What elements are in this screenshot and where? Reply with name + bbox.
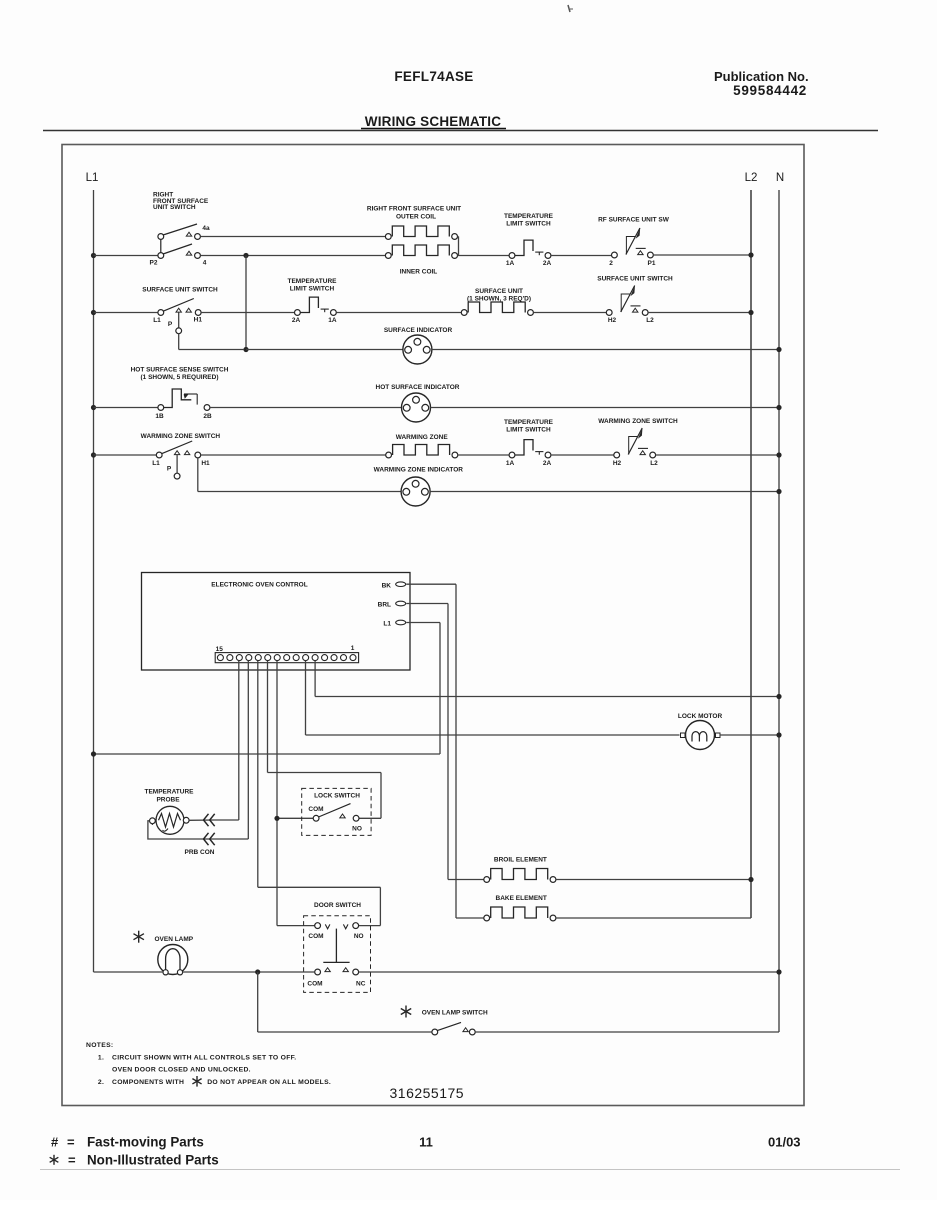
connector terminal strip P1 pins 15-1 — [215, 653, 358, 663]
label door upper NO — [354, 933, 364, 940]
label P row5 — [167, 466, 172, 473]
label 2B — [203, 413, 212, 420]
svg-text:FEFL74ASE: FEFL74ASE — [394, 69, 473, 84]
label 4a — [202, 225, 210, 232]
svg-text:OVEN LAMP SWITCH: OVEN LAMP SWITCH — [422, 1010, 488, 1017]
junction lamprow-N — [776, 969, 781, 974]
svg-text:SURFACE UNIT: SURFACE UNIT — [475, 288, 523, 295]
svg-text:TEMPERATURE: TEMPERATURE — [145, 789, 195, 796]
svg-text:DO NOT APPEAR ON ALL MODELS.: DO NOT APPEAR ON ALL MODELS. — [207, 1079, 331, 1086]
resistor inner coil — [385, 245, 457, 258]
resistor bake element — [484, 907, 556, 921]
junction row2-L2 — [748, 310, 753, 315]
wire tap down to bottom row — [258, 972, 432, 1032]
svg-text:CIRCUIT SHOWN WITH ALL CONTROL: CIRCUIT SHOWN WITH ALL CONTROLS SET TO O… — [112, 1054, 296, 1061]
label oven lamp switch star — [401, 1006, 411, 1018]
junction row5-N — [776, 452, 781, 457]
svg-text:(1 SHOWN, 3 REQ'D): (1 SHOWN, 3 REQ'D) — [467, 295, 531, 302]
svg-text:WARMING ZONE: WARMING ZONE — [396, 434, 449, 441]
svg-text:BRL: BRL — [378, 602, 391, 609]
svg-text:UNIT SWITCH: UNIT SWITCH — [153, 204, 196, 211]
svg-text:OUTER COIL: OUTER COIL — [396, 214, 436, 221]
wire lock motor to N — [720, 734, 779, 736]
wire pin9 to lock COM and door COM — [277, 661, 315, 926]
label warming zone indicator — [374, 467, 464, 474]
wire L1 to warming switch — [94, 454, 157, 456]
svg-text:P1: P1 — [648, 260, 656, 267]
wire warming indicator to N — [430, 491, 779, 493]
label warming zone element — [396, 434, 449, 441]
junction L1-row1 — [91, 253, 96, 258]
svg-text:BROIL ELEMENT: BROIL ELEMENT — [494, 857, 547, 864]
node L1 label — [86, 172, 99, 184]
switch warming zone switch right — [614, 428, 656, 458]
block U1 electronic oven control — [142, 573, 411, 671]
pin BRL — [378, 601, 406, 608]
connector chevrons probe hot — [204, 814, 215, 826]
schematic border frame — [62, 145, 804, 1106]
label broil element — [494, 857, 547, 864]
label hot surface sense switch — [131, 367, 229, 381]
resistor outer coil — [385, 226, 457, 239]
svg-text:2B: 2B — [203, 413, 212, 420]
label right front surface unit coil — [367, 206, 461, 221]
svg-text:(1 SHOWN, 5 REQUIRED): (1 SHOWN, 5 REQUIRED) — [140, 374, 218, 381]
wire switch to N row5 — [656, 454, 779, 456]
label 2A row2 — [292, 317, 301, 324]
svg-text:4a: 4a — [202, 225, 210, 232]
svg-text:L2: L2 — [646, 317, 654, 324]
label right front surface unit switch — [153, 192, 209, 212]
note 2 part a — [98, 1079, 184, 1086]
svg-text:COM: COM — [307, 981, 322, 988]
wire 4 to inner coil — [200, 255, 385, 257]
wire limit to warming switch right — [551, 454, 614, 456]
svg-text:SURFACE UNIT SWITCH: SURFACE UNIT SWITCH — [142, 287, 218, 294]
stray scan mark — [568, 5, 573, 12]
svg-text:LIMIT SWITCH: LIMIT SWITCH — [506, 426, 551, 433]
svg-text:NOTES:: NOTES: — [86, 1042, 113, 1049]
wire element to limit row5 — [458, 454, 509, 456]
svg-text:DOOR SWITCH: DOOR SWITCH — [314, 902, 361, 909]
lamp warming zone indicator — [401, 477, 430, 506]
label 2 — [609, 260, 613, 267]
page rule — [43, 130, 878, 132]
svg-text:RF SURFACE UNIT SW: RF SURFACE UNIT SW — [598, 217, 670, 224]
junction row1-x246 — [243, 253, 248, 258]
wire hot surface indicator to N — [431, 407, 780, 409]
svg-text:TEMPERATURE: TEMPERATURE — [288, 278, 338, 285]
svg-text:316255175: 316255175 — [390, 1085, 465, 1101]
wire row1 to row3 vertical — [245, 256, 247, 350]
switch temperature limit switch row1 — [509, 240, 551, 258]
note 2 part b — [207, 1079, 331, 1086]
label door lower NC — [356, 981, 366, 988]
enclosure door switch — [304, 916, 371, 993]
label surface indicator — [384, 327, 453, 334]
wire pin5 to N — [315, 661, 779, 697]
svg-text:H1: H1 — [194, 317, 203, 324]
wire coil join — [458, 237, 459, 256]
svg-text:BAKE ELEMENT: BAKE ELEMENT — [496, 895, 547, 902]
svg-text:L2: L2 — [745, 172, 758, 184]
svg-text:1A: 1A — [328, 317, 337, 324]
wire N rail — [778, 190, 780, 1032]
svg-text:P: P — [167, 466, 172, 473]
svg-text:WIRING SCHEMATIC: WIRING SCHEMATIC — [365, 114, 501, 129]
junction row1-L2 — [748, 252, 753, 257]
switch surface unit switch right — [606, 285, 648, 315]
wire junction to surface indicator — [246, 349, 403, 351]
junction lamp row tap — [255, 969, 260, 974]
resistor broil element — [484, 869, 556, 883]
heading WIRING SCHEMATIC — [361, 114, 506, 129]
label hot surface indicator — [376, 384, 460, 391]
svg-text:OVEN LAMP: OVEN LAMP — [154, 936, 193, 943]
svg-text:H1: H1 — [201, 460, 210, 467]
label temperature limit switch row5 — [504, 419, 554, 433]
connector chevrons probe return — [204, 833, 215, 845]
wire BK to bake element — [406, 584, 484, 918]
svg-text:WARMING ZONE INDICATOR: WARMING ZONE INDICATOR — [374, 467, 464, 474]
node L2 label — [745, 172, 758, 184]
publication number — [714, 69, 809, 98]
wire lamp switch to N — [475, 1031, 779, 1033]
svg-text:11: 11 — [419, 1135, 433, 1150]
svg-text:4: 4 — [203, 260, 207, 267]
svg-text:2A: 2A — [543, 460, 552, 467]
wire probe return — [148, 821, 215, 839]
label 1A row2 — [328, 317, 337, 324]
wire L1 to P2 — [94, 255, 158, 257]
label electronic oven control — [211, 582, 307, 589]
wire H1 to warming element — [201, 454, 386, 456]
junction lockmotor-N — [776, 732, 781, 737]
label oven lamp star — [133, 931, 143, 943]
svg-text:15: 15 — [216, 646, 224, 653]
label RF surface unit sw — [598, 217, 670, 224]
linkage door switch actuator — [323, 929, 349, 963]
label pin 15 — [216, 646, 224, 653]
label L2 row2 — [646, 317, 654, 324]
wire L2 rail — [750, 190, 752, 918]
svg-text:PROBE: PROBE — [156, 796, 180, 803]
switch surface unit switch left — [158, 299, 201, 316]
svg-text:COM: COM — [308, 806, 323, 813]
svg-text:599584442: 599584442 — [733, 83, 807, 98]
wire L1 to surface unit switch — [94, 312, 158, 314]
switch temperature limit switch row2 — [295, 297, 337, 315]
label lock NO — [352, 826, 362, 833]
svg-text:L1: L1 — [383, 621, 391, 628]
enclosure lock switch — [302, 788, 371, 835]
svg-text:SURFACE INDICATOR: SURFACE INDICATOR — [384, 327, 453, 334]
wire H1 to limit switch row2 — [201, 312, 294, 314]
svg-text:L1: L1 — [153, 317, 161, 324]
switch warming zone switch left — [156, 441, 200, 458]
label H2 row2 — [608, 317, 617, 324]
label door switch — [314, 902, 361, 909]
note 2 star — [192, 1076, 201, 1087]
wire coils to limit switch — [459, 255, 510, 257]
svg-text:NC: NC — [356, 981, 366, 988]
svg-text:LOCK SWITCH: LOCK SWITCH — [314, 793, 360, 800]
pin L1 — [383, 620, 405, 627]
label temperature probe — [145, 789, 195, 804]
switch hot surface sense switch — [158, 389, 210, 410]
label L1 row5 — [152, 460, 160, 467]
junction pin5-N — [776, 694, 781, 699]
svg-text:2.: 2. — [98, 1079, 104, 1086]
svg-text:H2: H2 — [613, 460, 622, 467]
wire element to switch row2 — [533, 312, 606, 314]
wire pin11 to door NO — [258, 661, 381, 926]
junction broil-L2 — [748, 877, 753, 882]
svg-text:BK: BK — [382, 582, 392, 589]
label 1A row1 — [506, 260, 515, 267]
wire L1 pin to L1 rail — [94, 623, 441, 755]
wire door NC to N — [359, 971, 779, 973]
junction row4-N — [776, 405, 781, 410]
wire L1 to oven lamp — [94, 971, 164, 973]
label P1 — [648, 260, 656, 267]
footer faint rule — [40, 1169, 900, 1171]
lamp surface indicator — [403, 335, 432, 364]
wire pin6 to lock motor — [306, 661, 680, 735]
switch S1 right front surface unit switch — [158, 224, 201, 258]
wire L1 to 1B — [94, 407, 158, 409]
label H2 row5 — [613, 460, 622, 467]
junction x246-row3 — [243, 347, 248, 352]
label warming zone switch right — [598, 418, 678, 425]
wire H1 drop to row6 — [198, 458, 401, 492]
svg-text:Non-Illustrated Parts: Non-Illustrated Parts — [87, 1153, 219, 1168]
svg-text:L2: L2 — [650, 460, 658, 467]
switch RF surface unit sw — [612, 228, 654, 258]
switch lock switch — [313, 804, 359, 822]
junction lock COM — [274, 816, 279, 821]
label oven lamp — [154, 936, 193, 943]
part number 316255175 — [390, 1085, 465, 1101]
label oven lamp switch — [422, 1010, 488, 1017]
svg-text:H2: H2 — [608, 317, 617, 324]
wire pin10 to lock NO — [268, 661, 382, 819]
svg-text:WARMING ZONE SWITCH: WARMING ZONE SWITCH — [141, 433, 221, 440]
svg-text:OVEN DOOR CLOSED AND UNLOCKED.: OVEN DOOR CLOSED AND UNLOCKED. — [112, 1067, 251, 1074]
svg-text:HOT SURFACE SENSE SWITCH: HOT SURFACE SENSE SWITCH — [131, 367, 229, 374]
svg-text:1A: 1A — [506, 260, 515, 267]
svg-text:L1: L1 — [152, 460, 160, 467]
wire surface indicator to N — [432, 349, 779, 351]
wire broil to L2 — [556, 879, 751, 881]
svg-text:ELECTRONIC OVEN CONTROL: ELECTRONIC OVEN CONTROL — [211, 582, 307, 589]
svg-text:P2: P2 — [150, 260, 158, 267]
label H1 row2 — [194, 317, 203, 324]
label temperature limit switch row2 — [288, 278, 338, 292]
wire probe hot — [189, 819, 214, 821]
label lock switch — [314, 793, 360, 800]
terminal P stub row5 — [174, 455, 180, 479]
label temperature limit switch row1 — [504, 213, 554, 227]
svg-text:TEMPERATURE: TEMPERATURE — [504, 213, 554, 220]
wire 4a to outer coil — [200, 236, 385, 238]
junction L1-row2 — [91, 310, 96, 315]
junction row3-N — [776, 347, 781, 352]
switch oven lamp switch — [432, 1022, 475, 1035]
motor M1 lock motor — [681, 721, 721, 750]
label 1B — [155, 413, 164, 420]
svg-text:2A: 2A — [543, 260, 552, 267]
svg-text:=: = — [67, 1135, 75, 1150]
label P row2 — [168, 321, 173, 328]
label PRB CON — [185, 849, 215, 856]
label P2 — [150, 260, 158, 267]
svg-text:RIGHT FRONT SURFACE UNIT: RIGHT FRONT SURFACE UNIT — [367, 206, 461, 213]
wire 2B to hot surface indicator — [210, 407, 402, 409]
lamp hot surface indicator — [402, 393, 431, 422]
footer non-illustrated parts — [50, 1153, 219, 1168]
svg-text:COMPONENTS WITH: COMPONENTS WITH — [112, 1079, 184, 1086]
label surface unit switch left — [142, 287, 218, 294]
wire pin13 to probe — [215, 661, 239, 820]
svg-text:PRB CON: PRB CON — [185, 849, 215, 856]
label L2 row5 — [650, 460, 658, 467]
wire limit to element row2 — [336, 312, 461, 314]
note 1 line 1 — [98, 1054, 297, 1061]
switch door switch lower contacts — [315, 968, 359, 975]
junction L1 rail-eoc — [91, 751, 96, 756]
wire oven lamp to door COM — [183, 971, 315, 973]
label pin 1 — [351, 645, 355, 652]
svg-text:LIMIT SWITCH: LIMIT SWITCH — [290, 285, 335, 292]
svg-text:LOCK MOTOR: LOCK MOTOR — [678, 713, 723, 720]
node N label — [776, 172, 784, 184]
note 1 line 2 — [112, 1067, 251, 1074]
svg-text:WARMING ZONE SWITCH: WARMING ZONE SWITCH — [598, 418, 678, 425]
svg-text:1: 1 — [351, 645, 355, 652]
svg-text:2: 2 — [609, 260, 613, 267]
svg-text:NO: NO — [352, 826, 362, 833]
switch temperature limit switch row5 — [509, 440, 551, 458]
junction row6-N — [776, 489, 781, 494]
label surface unit element — [467, 288, 531, 302]
svg-text:=: = — [68, 1153, 76, 1168]
footer page number — [419, 1135, 433, 1150]
label H1 row5 — [201, 460, 210, 467]
wire L1 rail — [93, 190, 95, 972]
wire pin12 to probe return — [215, 661, 248, 839]
wire bake to L2 — [556, 917, 751, 919]
label 1A row5 — [506, 460, 515, 467]
junction L1-row5 — [91, 452, 96, 457]
label warming zone switch left — [141, 433, 221, 440]
label lock motor — [678, 713, 723, 720]
resistor warming zone element — [386, 445, 458, 458]
wire switch to L2 row2 — [648, 312, 751, 314]
label door upper COM — [308, 933, 323, 940]
label door lower COM — [307, 981, 322, 988]
label 2A row5 — [543, 460, 552, 467]
svg-text:HOT SURFACE INDICATOR: HOT SURFACE INDICATOR — [376, 384, 460, 391]
label 4 — [203, 260, 207, 267]
junction L1-row4 — [91, 405, 96, 410]
svg-text:2A: 2A — [292, 317, 301, 324]
label 2A row1 — [543, 260, 552, 267]
svg-text:LIMIT SWITCH: LIMIT SWITCH — [506, 220, 551, 227]
wire limit to RF switch — [551, 255, 612, 257]
footer date — [768, 1135, 801, 1150]
wire RF switch to L2 — [653, 254, 751, 256]
resistor surface unit element — [461, 302, 533, 315]
switch door switch upper contacts — [315, 923, 359, 929]
label surface unit switch right — [597, 276, 673, 283]
svg-text:INNER COIL: INNER COIL — [400, 269, 438, 276]
svg-text:1A: 1A — [506, 460, 515, 467]
thermistor temperature probe — [150, 806, 190, 834]
label lock COM — [308, 806, 323, 813]
svg-text:Fast-moving Parts: Fast-moving Parts — [87, 1135, 204, 1150]
footer fast-moving parts — [51, 1135, 204, 1150]
svg-text:#: # — [51, 1135, 59, 1150]
svg-text:L1: L1 — [86, 172, 99, 184]
svg-text:N: N — [776, 172, 784, 184]
lamp oven lamp — [158, 945, 188, 975]
svg-text:COM: COM — [308, 933, 323, 940]
terminal P drop row2 — [176, 313, 182, 334]
svg-text:NO: NO — [354, 933, 364, 940]
wire P to junction — [179, 334, 244, 350]
wire BRL to broil element — [406, 604, 484, 880]
notes heading — [86, 1042, 113, 1049]
page title FEFL74ASE — [394, 69, 473, 84]
svg-text:P: P — [168, 321, 173, 328]
label inner coil — [400, 269, 438, 276]
svg-text:TEMPERATURE: TEMPERATURE — [504, 419, 554, 426]
label L1 row2 — [153, 317, 161, 324]
svg-text:1B: 1B — [155, 413, 164, 420]
svg-text:01/03: 01/03 — [768, 1135, 801, 1150]
svg-text:SURFACE UNIT SWITCH: SURFACE UNIT SWITCH — [597, 276, 673, 283]
svg-text:1.: 1. — [98, 1054, 104, 1061]
label bake element — [496, 895, 547, 902]
pin BK — [382, 582, 406, 589]
svg-text:Publication No.: Publication No. — [714, 69, 809, 84]
